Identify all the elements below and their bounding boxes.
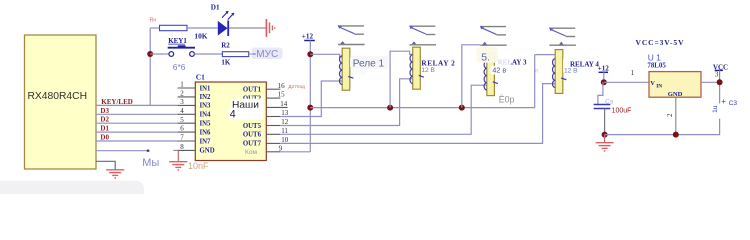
capacitor Cэ 100uF xyxy=(594,82,611,134)
svg-text:Rн: Rн xyxy=(150,17,157,23)
power +12 (right) xyxy=(598,64,610,82)
ground at regulator rail xyxy=(596,135,614,151)
power +12 (left) xyxy=(302,33,315,41)
junction rail/relay2 riser xyxy=(387,105,393,111)
RF module RX480R4CH xyxy=(25,35,97,169)
wire vertical from resistor/KEY1 to IC pin3 net xyxy=(149,28,151,105)
svg-text:п: п xyxy=(535,68,538,74)
svg-text:10nF: 10nF xyxy=(188,161,209,171)
svg-text:D1: D1 xyxy=(211,4,220,12)
svg-text:6: 6 xyxy=(180,125,184,133)
svg-text:4: 4 xyxy=(180,107,184,115)
wire R2 to MCU label xyxy=(249,53,256,55)
svg-text:4: 4 xyxy=(230,109,236,121)
svg-text:78L05: 78L05 xyxy=(647,62,666,69)
svg-text:OUT1: OUT1 xyxy=(243,87,262,94)
IC output labels OUT1-OUT7 xyxy=(243,87,262,148)
svg-text:Д27под: Д27под xyxy=(288,84,305,90)
svg-text:IN3: IN3 xyxy=(200,103,212,110)
wire +12 rail to relay4 xyxy=(310,55,534,108)
wire resistor to LED xyxy=(187,27,218,29)
svg-text:V: V xyxy=(650,80,655,87)
net label МУС xyxy=(252,48,283,61)
ground under IC pin8 xyxy=(169,162,187,170)
junction on KEY1 row xyxy=(147,51,153,57)
junction +12/relay1 coil xyxy=(307,51,313,57)
wire IC pin10 to relay4 coil bottom xyxy=(280,84,555,144)
svg-text:OUT5: OUT5 xyxy=(243,123,262,130)
overlay text 5. xyxy=(477,47,498,64)
wire IC pin9 to +12 bus xyxy=(280,151,310,153)
svg-text:U 1: U 1 xyxy=(648,52,661,62)
svg-text:D3: D3 xyxy=(100,107,109,115)
svg-text:16: 16 xyxy=(278,82,286,90)
svg-text:+: + xyxy=(721,97,726,106)
svg-text:D2: D2 xyxy=(100,116,109,124)
svg-text:2: 2 xyxy=(666,113,674,117)
svg-text:D0: D0 xyxy=(100,134,109,142)
resistor 10K xyxy=(160,25,188,30)
regulator U1 78L05 xyxy=(649,72,701,99)
wire D3 (module to IC pin4) xyxy=(96,113,178,115)
wire IC pin11 to relay3 coil bottom xyxy=(280,85,487,134)
svg-text:2: 2 xyxy=(180,90,184,98)
relay RL1 contacts xyxy=(338,25,365,44)
svg-text:6*6: 6*6 xyxy=(173,62,186,72)
svg-text:Реле 1: Реле 1 xyxy=(353,59,385,70)
svg-text:IN1: IN1 xyxy=(200,85,212,92)
op IC C1 body xyxy=(195,82,266,161)
svg-text:МУС: МУС xyxy=(256,49,278,60)
relay RL3 contacts xyxy=(480,26,507,45)
svg-text:1K: 1K xyxy=(221,58,231,66)
ground under module xyxy=(106,170,124,178)
relay RL2 contacts xyxy=(409,25,436,44)
svg-text:IN4: IN4 xyxy=(200,112,212,119)
svg-text:+12: +12 xyxy=(598,64,610,72)
wire module bottom pin to ground xyxy=(96,161,115,169)
svg-text:8: 8 xyxy=(180,143,184,151)
svg-text:1: 1 xyxy=(180,81,184,89)
relay RL4 coil xyxy=(553,50,563,94)
wire D2 (module to IC pin5) xyxy=(96,122,178,124)
sideways ground after LED xyxy=(266,19,274,37)
svg-text:OUT6: OUT6 xyxy=(243,132,262,139)
IC right pin numbers xyxy=(278,82,289,153)
svg-text:R2: R2 xyxy=(221,41,230,49)
wire D1 (module to IC pin6) xyxy=(96,131,178,133)
wire KEY/LED net (module to IC pin3) xyxy=(96,104,178,106)
wire relay4 coil top feed xyxy=(535,54,556,56)
svg-text:3: 3 xyxy=(715,70,719,78)
svg-text:GND: GND xyxy=(200,148,215,155)
relay RL1 coil xyxy=(340,48,350,90)
svg-text:D1: D1 xyxy=(100,125,109,133)
svg-text:IN7: IN7 xyxy=(200,138,212,145)
svg-text:OUT7: OUT7 xyxy=(243,141,262,148)
designator RELAY 4 xyxy=(563,57,599,75)
svg-text:100uF: 100uF xyxy=(612,108,632,115)
junction rail/relay3 riser xyxy=(459,105,465,111)
svg-text:IN: IN xyxy=(656,83,662,89)
wire to resistor R-top xyxy=(150,27,159,29)
svg-text:5: 5 xyxy=(180,116,184,124)
svg-text:Мы: Мы xyxy=(142,157,159,169)
wire +12 to regulator pin1 xyxy=(604,81,649,83)
svg-text:12 В: 12 В xyxy=(421,67,435,74)
wire switch to R2 xyxy=(194,53,222,55)
svg-text:GND: GND xyxy=(668,91,683,98)
svg-text:5.: 5. xyxy=(481,53,490,64)
overlay text Наши xyxy=(231,99,264,111)
svg-text:RX480R4CH: RX480R4CH xyxy=(28,91,88,102)
svg-text:+12: +12 xyxy=(302,33,314,41)
svg-text:IN2: IN2 xyxy=(200,94,212,101)
junction VCC node xyxy=(717,79,723,85)
svg-text:Ком: Ком xyxy=(245,149,258,156)
wire junction to switch KEY1 xyxy=(150,53,169,55)
IC left pin numbers xyxy=(180,81,184,151)
IC left pin stubs 1-8 xyxy=(178,88,196,150)
wire relay3 riser to contact xyxy=(462,45,480,108)
junction +12/regulator input xyxy=(601,79,607,85)
IC input labels IN1-IN7 GND xyxy=(200,85,215,154)
svg-text:10K: 10K xyxy=(194,32,207,41)
svg-text:KEY/LED: KEY/LED xyxy=(101,98,133,106)
designator KEY1 xyxy=(168,37,187,45)
svg-text:Ё0р: Ё0р xyxy=(499,95,515,105)
coil winding end ticks xyxy=(348,75,566,83)
junction pin2/rail xyxy=(673,132,679,138)
wire IC pin12 to relay2 coil bottom xyxy=(280,79,412,126)
svg-text:14: 14 xyxy=(280,100,288,108)
wire +12 to relay1 coil top xyxy=(310,54,342,57)
svg-text:1u: 1u xyxy=(712,105,719,113)
designator RELAY 3 xyxy=(496,57,527,67)
overlay value 42 в xyxy=(490,66,509,75)
wire GND net (module to IC pin8) xyxy=(96,149,178,151)
label Реле 1 xyxy=(350,56,389,75)
capacitor C3 1u (label overlay) xyxy=(712,97,749,119)
resistor R2 xyxy=(222,52,248,57)
wire ground rail to VCC branch xyxy=(605,82,720,134)
overlay text 4 xyxy=(228,108,262,121)
svg-text:15: 15 xyxy=(278,91,286,99)
svg-text:42 в: 42 в xyxy=(492,66,506,75)
svg-text:7: 7 xyxy=(180,134,184,142)
svg-text:12 В: 12 В xyxy=(564,68,578,75)
wire +12 vertical bus xyxy=(309,41,311,152)
junction cap/ground/rail xyxy=(602,132,608,138)
designator Cэ xyxy=(605,97,618,106)
svg-text:IN5: IN5 xyxy=(200,121,212,128)
wire regulator pin3 to VCC xyxy=(701,81,720,83)
svg-text:IN6: IN6 xyxy=(200,129,212,136)
relay RL3 coil xyxy=(484,54,494,96)
svg-text:Cэ: Cэ xyxy=(605,98,614,105)
gray footer panel xyxy=(0,181,144,203)
ground stem at IC pin8 xyxy=(177,150,179,161)
wire D0 (module to IC pin7) xyxy=(96,140,178,142)
junction +12/rail xyxy=(307,105,313,111)
power VCC xyxy=(713,64,728,82)
IC right pin stubs 16-9 xyxy=(266,89,287,152)
wire regulator pin2 to ground rail xyxy=(675,97,677,134)
wire relay2 riser to coil top xyxy=(390,51,413,107)
relay RL2 coil xyxy=(410,47,420,89)
svg-text:3: 3 xyxy=(180,98,184,106)
wire IC pin13 to relay1 coil bottom xyxy=(280,81,342,117)
svg-text:C1: C1 xyxy=(196,73,205,82)
relay RL4 contacts xyxy=(549,27,576,45)
svg-text:C3: C3 xyxy=(729,100,738,107)
LED D1 xyxy=(218,11,235,36)
switch KEY1 xyxy=(168,45,195,56)
svg-text:VCC=3V-5V: VCC=3V-5V xyxy=(636,38,685,47)
svg-text:1: 1 xyxy=(631,69,635,77)
wire LED to ground-right xyxy=(229,27,266,29)
